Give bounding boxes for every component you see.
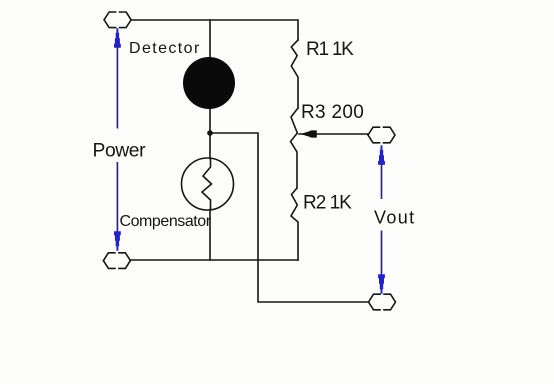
- svg-text:R3 200: R3 200: [301, 102, 364, 123]
- port P2 bottom-left: [103, 253, 130, 269]
- wire top bus: [131, 20, 298, 40]
- wire bottom bus: [130, 259, 298, 261]
- resistor R2: [291, 188, 298, 260]
- wire detector top lead: [209, 20, 211, 58]
- node junction dot: [207, 130, 213, 136]
- resistor R3 (potentiometer): [291, 108, 299, 188]
- wire compensator bottom lead: [209, 210, 211, 261]
- power arrow down: [114, 162, 121, 251]
- port P1 top-left: [104, 12, 131, 28]
- compensator (lamp with filament): [182, 158, 234, 210]
- wiper arrowhead of R3: [301, 130, 317, 137]
- port P3 top-right: [368, 127, 395, 143]
- wire detector to junction: [209, 109, 211, 159]
- port P4 bottom-right: [369, 294, 396, 310]
- svg-text:Detector: Detector: [129, 40, 201, 57]
- wiper wire of R3: [299, 133, 368, 135]
- detector (lamp): [183, 57, 235, 109]
- svg-text:R2 1K: R2 1K: [303, 193, 352, 214]
- power arrow up: [114, 28, 121, 128]
- svg-text:R1 1K: R1 1K: [306, 39, 354, 60]
- svg-text:Vout: Vout: [374, 207, 415, 227]
- svg-text:Compensator: Compensator: [120, 213, 212, 230]
- wire junction to output port: [210, 133, 368, 302]
- vout arrow up: [378, 145, 385, 199]
- resistor R1: [291, 40, 298, 108]
- svg-text:Power: Power: [93, 140, 147, 161]
- vout arrow down: [378, 231, 385, 294]
